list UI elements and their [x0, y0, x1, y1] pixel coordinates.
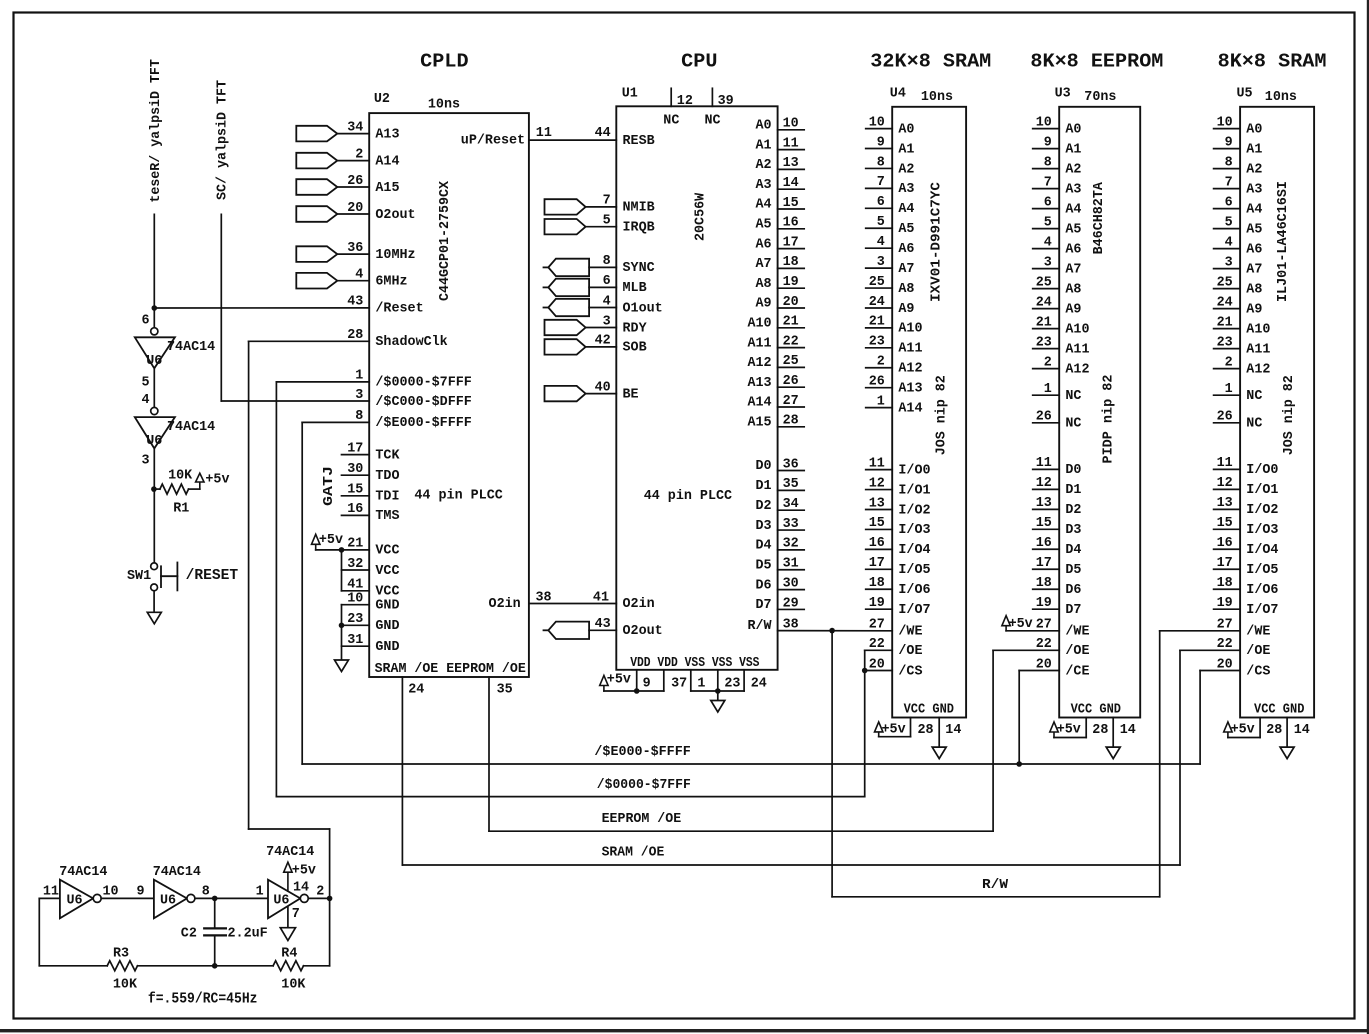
- svg-text:ShadowClk: ShadowClk: [375, 335, 447, 350]
- svg-text:21: 21: [1036, 315, 1052, 330]
- U3 pin 19 D7 stub: [1033, 608, 1060, 610]
- svg-text:A14: A14: [747, 396, 771, 411]
- svg-text:NMIB: NMIB: [623, 201, 655, 216]
- svg-text:NC: NC: [1065, 389, 1081, 404]
- inverter U6B 74AC14 (osc stage 2): [154, 880, 187, 919]
- svg-text:21: 21: [783, 315, 799, 330]
- svg-text:A3: A3: [1246, 182, 1262, 197]
- svg-text:A9: A9: [898, 302, 914, 317]
- svg-text:A11: A11: [1065, 342, 1089, 357]
- U2 JTAG pin 15 TDI: [342, 495, 370, 497]
- svg-text:A5: A5: [898, 222, 914, 237]
- U3 pin 27 /WE tied to +5v: [1006, 630, 1059, 632]
- svg-text:R/W: R/W: [747, 619, 772, 634]
- svg-text:18: 18: [869, 576, 885, 591]
- svg-text:32K×8 SRAM: 32K×8 SRAM: [870, 51, 991, 73]
- U1 pin 17 A6 stub: [778, 248, 805, 250]
- wire SRAM /OE net U2.24: [401, 677, 403, 865]
- svg-text:GATJ: GATJ: [322, 466, 337, 506]
- U5 pin 25 A8 stub: [1214, 288, 1241, 290]
- svg-text:I/O0: I/O0: [898, 463, 930, 478]
- svg-text:A0: A0: [1246, 122, 1262, 137]
- svg-text:26: 26: [869, 374, 885, 389]
- U2 pin 41 VCC: [342, 590, 370, 592]
- U4 GND pin 14 wire: [938, 718, 940, 748]
- svg-text:10: 10: [103, 884, 119, 899]
- svg-text:17: 17: [1217, 556, 1233, 571]
- svg-text:30: 30: [347, 462, 363, 477]
- U3 pin 8 A2 stub: [1033, 168, 1060, 170]
- svg-text:A5: A5: [1065, 222, 1081, 237]
- U1 pin 29 D7 stub: [778, 608, 805, 610]
- U2 pin 36 10MHz input flag: [296, 246, 337, 262]
- svg-text:11: 11: [1217, 456, 1233, 471]
- svg-text:12: 12: [1217, 476, 1233, 491]
- U2 VCC rail wire: [341, 550, 343, 591]
- svg-text:18: 18: [783, 255, 799, 270]
- svg-text:11: 11: [536, 126, 552, 141]
- svg-text:I/O4: I/O4: [1246, 543, 1278, 558]
- svg-text:D7: D7: [1065, 603, 1081, 618]
- svg-text:A15: A15: [375, 181, 399, 196]
- svg-text:A10: A10: [1246, 322, 1270, 337]
- svg-text:A6: A6: [756, 237, 772, 252]
- svg-text:12: 12: [869, 476, 885, 491]
- svg-text:14: 14: [1120, 723, 1136, 738]
- svg-text:A12: A12: [747, 356, 771, 371]
- svg-text:32: 32: [783, 537, 799, 552]
- svg-text:4: 4: [603, 294, 611, 309]
- svg-text:D6: D6: [756, 578, 772, 593]
- svg-text:14: 14: [783, 176, 799, 191]
- U1 pin 13 A2 stub: [778, 168, 805, 170]
- svg-text:ILJ01-LA46C16SI: ILJ01-LA46C16SI: [1276, 181, 1291, 302]
- svg-text:36: 36: [783, 457, 799, 472]
- svg-text:A7: A7: [756, 257, 772, 272]
- svg-text:/$C000-$DFFF: /$C000-$DFFF: [375, 395, 471, 410]
- svg-text:I/O7: I/O7: [1246, 603, 1278, 618]
- svg-text:9: 9: [136, 884, 144, 899]
- svg-text:44 pin PLCC: 44 pin PLCC: [644, 489, 732, 504]
- svg-text:/CE: /CE: [1065, 664, 1089, 679]
- U1 pin 21 A10 stub: [778, 327, 805, 329]
- svg-text:R/W: R/W: [982, 878, 1009, 893]
- svg-text:A7: A7: [1246, 262, 1262, 277]
- svg-text:A6: A6: [1065, 242, 1081, 257]
- svg-text:28: 28: [918, 723, 934, 738]
- svg-text:30: 30: [783, 576, 799, 591]
- svg-text:C44GCP01-2759CX: C44GCP01-2759CX: [438, 180, 453, 301]
- svg-text:A10: A10: [1065, 322, 1089, 337]
- svg-text:JOS nip 82: JOS nip 82: [935, 375, 950, 455]
- U6C +5v supply pin 14: [287, 872, 289, 892]
- wire EEPROM /OE net U2.35: [488, 677, 490, 831]
- inverter U6C 74AC14 (osc stage 3): [268, 880, 300, 919]
- SRAM U4 body: [892, 107, 966, 718]
- U1 pin 26 A13 stub: [778, 386, 805, 388]
- svg-text:44 pin PLCC: 44 pin PLCC: [414, 489, 502, 504]
- svg-text:24: 24: [869, 295, 885, 310]
- svg-text:+5v: +5v: [1057, 722, 1081, 737]
- svg-text:/$E000-$FFFF: /$E000-$FFFF: [375, 416, 471, 431]
- svg-text:6: 6: [877, 195, 885, 210]
- svg-text:11: 11: [1036, 456, 1052, 471]
- svg-text:D3: D3: [756, 519, 772, 534]
- resistor R1 10K pullup: [160, 484, 189, 494]
- U4 ground symbol: [932, 747, 946, 759]
- U2 GND rail wire: [341, 605, 343, 660]
- svg-text:A10: A10: [747, 317, 771, 332]
- svg-text:O2in: O2in: [623, 597, 655, 612]
- svg-text:D1: D1: [756, 479, 772, 494]
- svg-text:A6: A6: [898, 242, 914, 257]
- U4 pin 25 A8 stub: [866, 287, 893, 289]
- svg-text:I/O7: I/O7: [898, 603, 930, 618]
- svg-text:26: 26: [783, 374, 799, 389]
- U2 pin 20 O2out input flag: [296, 206, 337, 222]
- U4 pin 11 I/O0 stub: [866, 469, 893, 471]
- svg-text:7: 7: [1225, 175, 1233, 190]
- U3 pin 25 A8 stub: [1033, 288, 1060, 290]
- U4 VCC pin 28 wire: [910, 718, 912, 737]
- svg-text:8: 8: [1225, 155, 1233, 170]
- U1 pin 36 D0 stub: [778, 470, 805, 472]
- svg-text:A10: A10: [898, 322, 922, 337]
- svg-text:NC: NC: [1246, 417, 1262, 432]
- U4 pin 12 I/O1 stub: [866, 489, 893, 491]
- U5 pin 10 A0 stub: [1214, 128, 1241, 130]
- svg-text:TDI: TDI: [375, 490, 399, 505]
- svg-text:34: 34: [347, 120, 363, 135]
- svg-text:17: 17: [783, 235, 799, 250]
- U3 pin 9 A1 stub: [1033, 148, 1060, 150]
- svg-text:2: 2: [1225, 355, 1233, 370]
- U1 pin 18 A7 stub: [778, 267, 805, 269]
- svg-text:GND: GND: [375, 640, 399, 655]
- svg-text:7: 7: [603, 194, 611, 209]
- svg-text:20: 20: [783, 295, 799, 310]
- svg-text:4: 4: [355, 268, 363, 283]
- svg-text:D3: D3: [1065, 523, 1081, 538]
- U1 pin 32 D4 stub: [778, 549, 805, 551]
- U3 pin 18 D6 stub: [1033, 588, 1060, 590]
- svg-text:15: 15: [347, 483, 363, 498]
- svg-text:23: 23: [724, 677, 740, 692]
- U2 pin 21 VCC: [342, 549, 370, 551]
- svg-text:U4: U4: [890, 87, 906, 102]
- svg-text:+5v: +5v: [205, 473, 229, 488]
- svg-text:11: 11: [869, 456, 885, 471]
- svg-text:I/O3: I/O3: [1246, 523, 1278, 538]
- svg-text:20: 20: [347, 201, 363, 216]
- U1 pin 28 A15 stub: [778, 426, 805, 428]
- svg-text:teseR/ yalpsiD TFT: teseR/ yalpsiD TFT: [149, 59, 164, 203]
- svg-text:SW1: SW1: [127, 569, 151, 584]
- svg-text:A7: A7: [1065, 262, 1081, 277]
- U4 pin 19 I/O7 stub: [866, 608, 893, 610]
- svg-text:A12: A12: [1246, 362, 1270, 377]
- svg-text:23: 23: [869, 335, 885, 350]
- svg-text:74AC14: 74AC14: [266, 845, 314, 860]
- switch SW1 /RESET pushbutton: [151, 563, 158, 570]
- U1 VSS pin stubs 1 23 24: [690, 670, 692, 691]
- svg-text:10MHz: 10MHz: [375, 248, 415, 263]
- svg-text:15: 15: [783, 196, 799, 211]
- svg-text:A9: A9: [1246, 302, 1262, 317]
- svg-text:/$0000-$7FFF: /$0000-$7FFF: [597, 778, 691, 793]
- U1 pin 39 NC top stub: [711, 88, 713, 106]
- U2 +5v supply symbol: [312, 534, 320, 544]
- svg-text:2.2uF: 2.2uF: [228, 927, 268, 942]
- svg-text:3: 3: [142, 454, 150, 469]
- svg-text:1: 1: [256, 884, 264, 899]
- U2 pin 34 A13 input flag: [296, 126, 337, 142]
- U1 +5v supply symbol: [600, 676, 608, 686]
- svg-text:14: 14: [945, 723, 961, 738]
- svg-text:1: 1: [877, 394, 885, 409]
- svg-text:A13: A13: [375, 127, 399, 142]
- U5 pin 21 A10 stub: [1214, 328, 1241, 330]
- svg-text:A1: A1: [898, 142, 914, 157]
- svg-text:2: 2: [877, 355, 885, 370]
- U2 pin 10 GND: [342, 604, 370, 606]
- svg-text:MLB: MLB: [623, 281, 647, 296]
- svg-text:25: 25: [869, 275, 885, 290]
- U3 pin 4 A6 stub: [1033, 248, 1060, 250]
- svg-text:35: 35: [783, 477, 799, 492]
- wire R4 to output node: [304, 965, 330, 967]
- U5 pin 5 A5 stub: [1214, 228, 1241, 230]
- svg-text:5: 5: [142, 376, 150, 391]
- svg-text:C2: C2: [181, 927, 197, 942]
- resistor R3 10K: [107, 961, 137, 971]
- svg-text:7: 7: [292, 907, 300, 922]
- U4 pin 3 A7 stub: [866, 267, 893, 269]
- U5 +5v supply symbol: [1224, 722, 1232, 732]
- svg-text:/$E000-$FFFF: /$E000-$FFFF: [594, 745, 690, 760]
- U4 pin 5 A5 stub: [866, 227, 893, 229]
- U1 pin 3 RDY input flag: [545, 320, 586, 335]
- wire oscillator feedback left leg: [38, 898, 40, 965]
- inverter U6F 74AC14 (reset buffer 1): [153, 308, 155, 328]
- svg-text:42: 42: [595, 334, 611, 349]
- svg-text:A2: A2: [1246, 162, 1262, 177]
- wire /Reset net to U2.43: [154, 307, 369, 309]
- wire O2in net U2.38 to U1.41: [529, 603, 616, 605]
- U4 +5v supply symbol: [875, 722, 883, 732]
- svg-text:CPU: CPU: [681, 51, 717, 73]
- svg-text:4: 4: [1044, 235, 1052, 250]
- U3 pin 23 A11 stub: [1033, 348, 1060, 350]
- svg-text:U6: U6: [146, 434, 162, 449]
- svg-text:27: 27: [783, 394, 799, 409]
- U4 pin 13 I/O2 stub: [866, 508, 893, 510]
- svg-text:25: 25: [1036, 275, 1052, 290]
- svg-text:VCC: VCC: [375, 544, 399, 559]
- svg-text:A3: A3: [756, 178, 772, 193]
- svg-text:I/O5: I/O5: [1246, 563, 1278, 578]
- svg-text:A12: A12: [898, 362, 922, 377]
- wire /$E000-$FFFF riser to U5 /CS: [1199, 671, 1201, 765]
- svg-text:6: 6: [1225, 195, 1233, 210]
- svg-text:15: 15: [1217, 516, 1233, 531]
- svg-text:21: 21: [1217, 315, 1233, 330]
- wire SW1 to ground: [153, 591, 155, 613]
- U6C ground pin 7: [287, 907, 289, 928]
- svg-text:R3: R3: [113, 947, 129, 962]
- svg-text:12: 12: [1036, 476, 1052, 491]
- U1 pin 19 A8 stub: [778, 287, 805, 289]
- U1 pin 30 D6 stub: [778, 589, 805, 591]
- U1 pin 43 O2out output flag: [544, 629, 549, 631]
- U2 JTAG pin 17 TCK: [342, 454, 370, 456]
- svg-text:A11: A11: [747, 336, 771, 351]
- svg-text:/$0000-$7FFF: /$0000-$7FFF: [375, 376, 471, 391]
- inverter U6E 74AC14 (reset buffer 2): [151, 407, 158, 414]
- U3 pin 26 NC stub: [1033, 422, 1060, 424]
- U3 +5v supply symbol: [1050, 722, 1058, 732]
- svg-text:TMS: TMS: [375, 509, 399, 524]
- svg-text:O1out: O1out: [623, 301, 663, 316]
- svg-text:23: 23: [1217, 335, 1233, 350]
- svg-text:TDO: TDO: [375, 469, 399, 484]
- U1 pin 34 D2 stub: [778, 509, 805, 511]
- U5 VCC pin 28 wire: [1259, 718, 1261, 738]
- svg-text:13: 13: [783, 156, 799, 171]
- svg-text:11: 11: [783, 136, 799, 151]
- svg-text:8: 8: [202, 884, 210, 899]
- svg-text:R1: R1: [173, 502, 189, 517]
- svg-text:8: 8: [603, 254, 611, 269]
- U1 pin 20 A9 stub: [778, 307, 805, 309]
- svg-text:14: 14: [293, 880, 309, 895]
- svg-text:U6: U6: [146, 354, 162, 369]
- svg-text:CPLD: CPLD: [420, 51, 468, 73]
- svg-text:28: 28: [783, 414, 799, 429]
- svg-text:D2: D2: [1065, 503, 1081, 518]
- wire C2 node to R4: [215, 965, 273, 967]
- svg-text:10K: 10K: [281, 978, 306, 993]
- svg-text:24: 24: [408, 683, 424, 698]
- U4 pin 23 A11 stub: [866, 347, 893, 349]
- svg-text:1: 1: [697, 677, 705, 692]
- U3 pin 2 A12 stub: [1033, 368, 1060, 370]
- svg-text:A0: A0: [1065, 122, 1081, 137]
- svg-text:19: 19: [1036, 596, 1052, 611]
- svg-text:JOS nip 82: JOS nip 82: [1282, 375, 1297, 455]
- U5 pin 11 I/O0 stub: [1214, 468, 1241, 470]
- U2 ground symbol: [335, 660, 349, 672]
- svg-text:32: 32: [347, 557, 363, 572]
- U3 GND pin 14 wire: [1112, 718, 1114, 748]
- wire R/W bus down and across: [831, 631, 833, 897]
- wire /$E000-$FFFF bus horizontal: [302, 763, 1200, 765]
- U5 pin 4 A6 stub: [1214, 248, 1241, 250]
- U3 pin 3 A7 stub: [1033, 268, 1060, 270]
- U5 ground symbol: [1280, 747, 1294, 759]
- svg-text:GND: GND: [375, 599, 399, 614]
- svg-text:A14: A14: [898, 401, 922, 416]
- svg-text:SC/ yalpsiD TFT: SC/ yalpsiD TFT: [216, 80, 231, 200]
- svg-text:D5: D5: [1065, 563, 1081, 578]
- U3 pin 21 A10 stub: [1033, 328, 1060, 330]
- U2 pin 2 A14 input flag: [296, 153, 337, 169]
- U2 JTAG pin 30 TDO: [342, 474, 370, 476]
- svg-text:SRAM /OE: SRAM /OE: [602, 846, 665, 861]
- svg-text:35: 35: [497, 683, 513, 698]
- svg-text:37: 37: [671, 677, 687, 692]
- svg-text:VCC: VCC: [375, 585, 399, 600]
- U4 pin 9 A1 stub: [866, 148, 893, 150]
- U3 ground symbol: [1106, 747, 1120, 759]
- svg-text:24: 24: [751, 677, 767, 692]
- svg-text:4: 4: [142, 393, 150, 408]
- U5 pin 7 A3 stub: [1214, 188, 1241, 190]
- svg-text:16: 16: [1036, 536, 1052, 551]
- svg-text:26: 26: [347, 174, 363, 189]
- svg-text:10: 10: [783, 117, 799, 132]
- U1 pin 33 D3 stub: [778, 529, 805, 531]
- svg-text:U3: U3: [1055, 87, 1071, 102]
- U3 pin 15 D3 stub: [1033, 528, 1060, 530]
- svg-text:/WE: /WE: [1065, 625, 1089, 640]
- svg-text:21: 21: [869, 315, 885, 330]
- svg-text:D1: D1: [1065, 483, 1081, 498]
- svg-text:A3: A3: [1065, 182, 1081, 197]
- svg-text:28: 28: [1092, 723, 1108, 738]
- svg-text:8K×8 EEPROM: 8K×8 EEPROM: [1030, 51, 1163, 73]
- svg-text:10: 10: [1036, 115, 1052, 130]
- svg-text:A1: A1: [1246, 142, 1262, 157]
- svg-text:NC: NC: [705, 114, 721, 129]
- svg-text:8K×8 SRAM: 8K×8 SRAM: [1218, 51, 1327, 73]
- svg-text:10: 10: [869, 115, 885, 130]
- U1 pin 11 A1 stub: [778, 149, 805, 151]
- svg-text:VCC GND: VCC GND: [904, 703, 954, 718]
- svg-text:I/O0: I/O0: [1246, 463, 1278, 478]
- svg-text:A11: A11: [898, 342, 922, 357]
- svg-text:/OE: /OE: [1246, 644, 1270, 659]
- CPU U1 body: [616, 106, 777, 670]
- svg-text:26: 26: [1036, 410, 1052, 425]
- U1 pin 42 SOB input flag: [545, 339, 586, 354]
- svg-text:7: 7: [877, 175, 885, 190]
- U2 pin 31 GND: [342, 645, 370, 647]
- svg-text:16: 16: [1217, 536, 1233, 551]
- U1 pin 10 A0 stub: [778, 129, 805, 131]
- svg-text:I/O6: I/O6: [898, 583, 930, 598]
- svg-text:+5v: +5v: [1009, 617, 1033, 632]
- U5 pin 3 A7 stub: [1214, 268, 1241, 270]
- svg-text:17: 17: [1036, 556, 1052, 571]
- svg-text:A5: A5: [1246, 222, 1262, 237]
- U2 pin 23 GND: [342, 624, 370, 626]
- svg-text:16: 16: [347, 502, 363, 517]
- svg-text:D6: D6: [1065, 583, 1081, 598]
- svg-text:R4: R4: [281, 947, 297, 962]
- U2 pin 32 VCC: [342, 569, 370, 571]
- svg-text:23: 23: [347, 612, 363, 627]
- svg-text:I/O2: I/O2: [898, 503, 930, 518]
- wire /$E000-$FFFF net U2.8 down: [302, 421, 369, 423]
- U3 pin 16 D4 stub: [1033, 548, 1060, 550]
- wire U6B out to node 8: [195, 897, 268, 899]
- svg-text:23: 23: [1036, 335, 1052, 350]
- U4 pin 17 I/O5 stub: [866, 568, 893, 570]
- svg-text:40: 40: [595, 380, 611, 395]
- svg-text:I/O4: I/O4: [898, 543, 930, 558]
- svg-text:A12: A12: [1065, 362, 1089, 377]
